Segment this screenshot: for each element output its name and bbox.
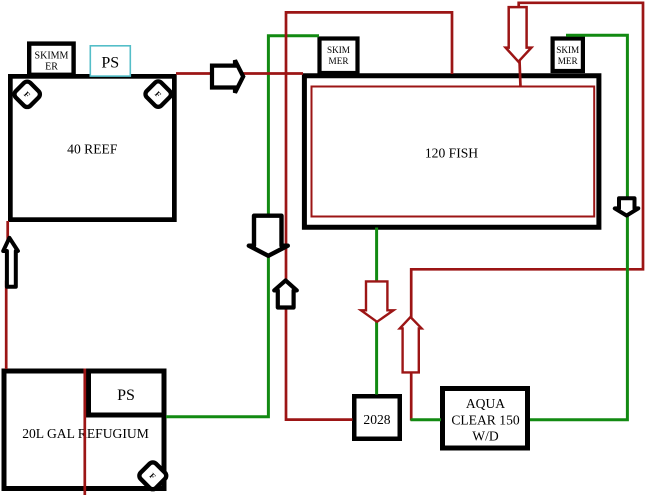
valve F diamond (reef left) <box>13 80 42 109</box>
pump 2028 box <box>354 396 400 439</box>
skimmer box (120 fish left) <box>320 39 358 74</box>
svg-text:MER: MER <box>329 56 350 66</box>
flow arrow black up (red line mid) <box>274 280 297 307</box>
PS powerhead box (refugium) <box>89 371 165 415</box>
wire green tank bottom to 2028 <box>375 228 378 395</box>
svg-text:2028: 2028 <box>363 412 390 427</box>
svg-text:AQUA: AQUA <box>466 396 505 411</box>
inner rim of 120 FISH <box>312 87 595 217</box>
wire red 120 fish top to 2028 <box>286 12 452 419</box>
svg-text:MER: MER <box>558 56 579 66</box>
wire green red loop to aqua clear <box>411 418 442 421</box>
tank 40 REEF <box>10 76 174 219</box>
flow arrow black up (left reef drain) <box>3 238 18 287</box>
wire red top feed to down arrow and right side loop <box>411 3 643 421</box>
skimmer box (40 reef) <box>29 44 73 75</box>
svg-text:40 REEF: 40 REEF <box>67 142 118 157</box>
svg-text:W/D: W/D <box>472 429 499 444</box>
svg-text:PS: PS <box>101 55 119 72</box>
flow arrow red down (above 2028) <box>361 281 393 321</box>
wire red reef drain to refugium <box>6 221 8 369</box>
wire green refugium to left skimmer <box>166 36 319 417</box>
sump 20L GAL REFUGIUM <box>4 371 164 489</box>
valve F diamond (refugium) <box>138 461 169 492</box>
valve F diamond (reef right) <box>144 80 173 109</box>
skimmer box (120 fish right) <box>553 39 583 72</box>
PS powerhead box (40 reef, cyan) <box>90 46 130 76</box>
flow arrow black down (green line) <box>249 216 288 256</box>
flow arrow black down small (right green) <box>615 198 639 215</box>
svg-text:SKIM: SKIM <box>556 45 579 55</box>
svg-text:CLEAR 150: CLEAR 150 <box>451 412 520 427</box>
svg-text:SKIMM: SKIMM <box>35 51 69 62</box>
wire green right skimmer to aqua clear <box>530 35 627 420</box>
flow arrow red down (into 120 fish) <box>506 7 532 62</box>
tank 120 FISH <box>304 76 599 228</box>
wire red reef to 120 fish <box>176 72 303 75</box>
wire red through refugium <box>83 369 86 495</box>
svg-text:ER: ER <box>45 62 58 73</box>
flow arrow black right (reef to fish) <box>212 60 243 92</box>
svg-text:PS: PS <box>117 387 135 404</box>
filter AQUA CLEAR 150 W/D box <box>443 389 528 449</box>
wire red arrow tip into tank <box>520 60 521 87</box>
svg-text:SKIM: SKIM <box>327 45 350 55</box>
flow arrow red up (left of aqua clear) <box>400 317 422 372</box>
svg-text:120 FISH: 120 FISH <box>425 146 478 161</box>
